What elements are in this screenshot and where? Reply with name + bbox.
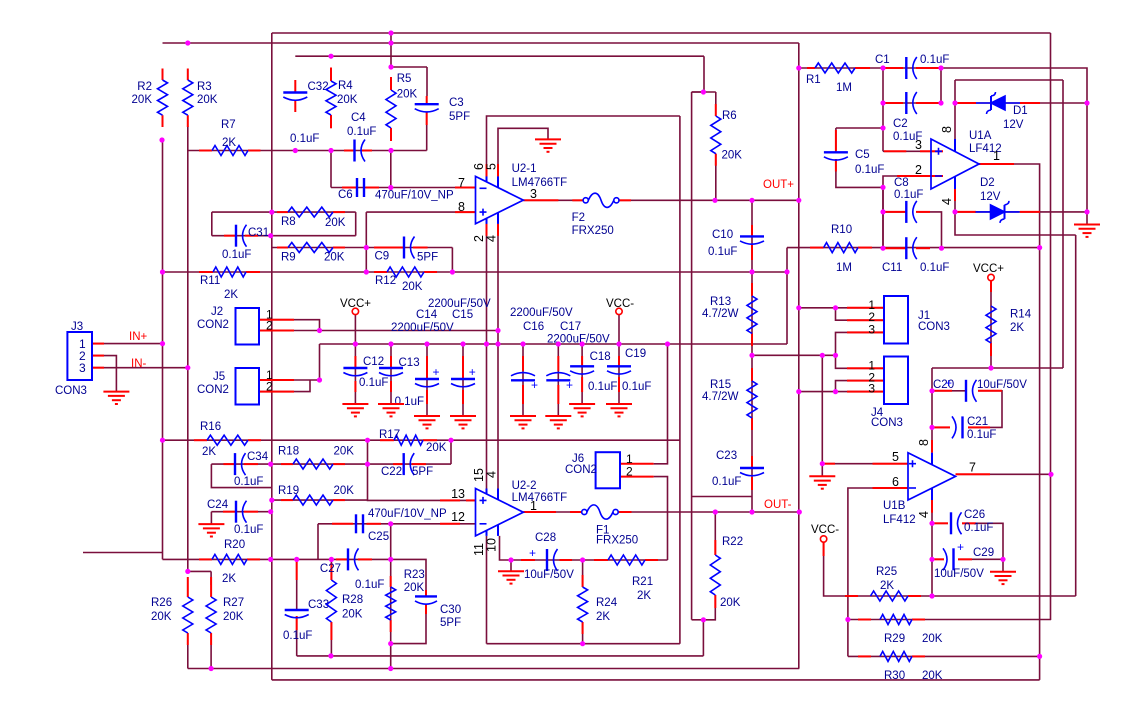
stub J6 pin2 stub (620, 476, 654, 478)
svg-text:R6: R6 (722, 110, 737, 122)
svg-text:3: 3 (868, 322, 875, 336)
resistor R10 (824, 243, 858, 253)
stub R3 bottom stub (187, 115, 189, 127)
stub U1A pin3 stub (920, 150, 943, 152)
wire J1 pin2 jog (836, 308, 885, 320)
svg-text:8: 8 (940, 126, 954, 133)
wire J2 pin1 over to pin2 (259, 320, 320, 331)
svg-text:1: 1 (993, 149, 1000, 163)
stub R21 right stub (645, 559, 658, 561)
capacitor C3 (415, 103, 439, 105)
svg-text:3: 3 (530, 187, 537, 201)
stub VCC- stem red (823, 542, 825, 556)
stub U1B pin7 stub (956, 473, 991, 475)
svg-text:8: 8 (917, 439, 931, 446)
svg-text:R19: R19 (278, 485, 299, 497)
wire C29 row right (958, 558, 1003, 560)
svg-text:2200uF/50V: 2200uF/50V (510, 307, 573, 319)
node C29 right (1000, 557, 1005, 562)
svg-text:5PF: 5PF (440, 617, 461, 629)
wire C34/R18 row y=464 (211, 463, 367, 465)
op-amp U2-2 LM4766TF (476, 489, 524, 536)
wire R9/C9 row y=247.5 left part (272, 247, 367, 249)
capacitor C28 10uF/50V (546, 549, 548, 571)
stub U2-1 pin2 stub (486, 224, 488, 236)
capacitor C15 2200uF (451, 378, 475, 380)
stub R15 top stub (751, 368, 753, 381)
svg-text:20K: 20K (151, 611, 172, 623)
svg-text:20K: 20K (397, 89, 418, 101)
svg-text:+: + (529, 546, 536, 560)
wire J4 pin3 row (799, 391, 884, 393)
resistor R6 (711, 116, 721, 154)
stub U1A pin4 red (954, 189, 956, 201)
capacitor C5 (824, 151, 848, 153)
wire vertical x=691.6 (y92 to R22 fork) (691, 92, 693, 620)
capacitor C11 (905, 237, 907, 259)
svg-text:5PF: 5PF (412, 466, 433, 478)
stub C4 left stub (344, 150, 355, 152)
stub C29 left red (932, 558, 944, 560)
stub R28 top red (330, 563, 332, 580)
wire R8 row y=212 (212, 211, 356, 213)
wire branch y=496.5 x691 to C23 column (692, 496, 752, 498)
node C15 rail (460, 341, 465, 346)
wire U1A pin8 riser (954, 103, 956, 139)
svg-text:20K: 20K (722, 150, 743, 162)
stub U2-1 pin3 output stub (523, 199, 558, 201)
node C10 bottom (749, 269, 754, 274)
svg-text:2K: 2K (637, 590, 651, 602)
svg-text:20K: 20K (197, 94, 218, 106)
stub C21 right red (968, 426, 990, 428)
stub U1B pin5 left red (824, 463, 835, 465)
svg-text:R27: R27 (223, 597, 244, 609)
capacitor C2 (905, 92, 907, 114)
svg-text:20K: 20K (337, 94, 358, 106)
wire R19 row y=500 (272, 499, 368, 501)
node C31 right (268, 233, 273, 238)
wire VCC+ post stem (354, 315, 356, 344)
stub R9 right stub (333, 247, 345, 249)
wire top bus y=33 (272, 32, 1051, 34)
stub R10 left stub (810, 247, 824, 249)
wire J6 pin1 riser to rail (654, 344, 668, 464)
stub U2-2 pin15 stub marker (486, 164, 488, 176)
svg-text:8: 8 (458, 200, 465, 214)
wire R26 bottom lead lower (187, 645, 189, 669)
svg-text:LF412: LF412 (883, 514, 916, 526)
wire C5 bottom loop (836, 159, 883, 187)
svg-text:2K: 2K (596, 611, 610, 623)
svg-text:20K: 20K (324, 252, 345, 264)
svg-text:LM4766TF: LM4766TF (512, 492, 568, 504)
stub C5 top red (835, 130, 837, 151)
svg-text:CON2: CON2 (197, 384, 229, 396)
svg-text:R20: R20 (224, 539, 245, 551)
node R5/bus33 (388, 30, 393, 35)
wire R27 bottom lead lower (210, 645, 212, 669)
stub C26 left red (932, 522, 948, 524)
node R23/C30 bottom (388, 641, 393, 646)
node C20 left (929, 388, 934, 393)
resistor R3 (183, 80, 193, 115)
stub D2 right red (1020, 211, 1040, 213)
stub U2-1 pin4 stub (497, 224, 499, 236)
stub C24 right stub (244, 511, 258, 513)
svg-text:2: 2 (626, 465, 633, 479)
wire D-box bottom loop (955, 212, 1076, 235)
wire C21 row left (932, 426, 950, 428)
wire VCC- to R25 left (824, 542, 845, 596)
svg-text:CON3: CON3 (871, 417, 903, 429)
svg-text:C18: C18 (590, 351, 611, 363)
svg-text:R17: R17 (379, 429, 400, 441)
svg-text:C31: C31 (248, 227, 269, 239)
op-amp U2-1 LM4766TF (476, 176, 524, 223)
wire left vertical x=272 (top to bottom rail) (271, 33, 273, 680)
stub J1 pin1 stub (847, 307, 884, 309)
svg-text:4: 4 (917, 511, 931, 518)
wire vertical x=787 (R10 corner to rail) (786, 248, 788, 344)
wire R1 row y=68 (799, 67, 883, 69)
stub C16 top stub (522, 356, 524, 371)
stub R12 right stub (424, 271, 437, 273)
resistor R21 (608, 555, 645, 565)
stub C15 bottom stub (462, 390, 464, 404)
stub R20 right stub (247, 558, 260, 560)
wire J1 pin1 row (799, 307, 884, 309)
node R29 left (845, 617, 850, 622)
node J1 pin1/2 (833, 305, 838, 310)
stub U2-1 pin7 stub (455, 187, 476, 189)
svg-text:C24: C24 (207, 499, 229, 511)
stub F2 right stub (618, 199, 631, 201)
svg-text:R25: R25 (876, 566, 897, 578)
wire x=367.5 R18/C22 drop (367, 440, 369, 464)
stub R13 bottom stub (751, 334, 753, 347)
wire vertical x=799 (y43 to bottom rail) (798, 43, 800, 669)
stub J4 pin3 stub (847, 391, 884, 393)
node C5 top (880, 125, 885, 130)
resistor R16 (207, 435, 248, 445)
stub C23 bottom stub (751, 477, 753, 490)
svg-text:20K: 20K (223, 611, 244, 623)
wire cap leg x=523 (522, 344, 524, 416)
wire rail y=344 right extension to x787 (668, 343, 788, 345)
svg-text:R12: R12 (375, 275, 396, 287)
stub C17 top stub (557, 356, 559, 371)
stub R7 right stub (248, 150, 261, 152)
svg-text:4: 4 (485, 235, 499, 242)
wire U2-1 pin8 row y=212 (366, 211, 475, 213)
wire J5 riser to rail (319, 344, 321, 380)
stub R9 left stub (277, 247, 288, 249)
node C10 top (749, 198, 754, 203)
stub C14 top stub (426, 356, 428, 379)
svg-text:C23: C23 (716, 450, 737, 462)
wire corner x704 y56-92 (692, 56, 704, 92)
stub C27 left stub (336, 558, 348, 560)
stub R8 right stub (333, 211, 345, 213)
node OUT- right (797, 509, 802, 514)
svg-text:C29: C29 (973, 547, 994, 559)
wire VCC- post stem (618, 315, 620, 344)
svg-text:C2: C2 (893, 118, 908, 130)
svg-text:C14: C14 (416, 309, 438, 321)
wire OUT- row y=512 left of F1 (523, 511, 581, 513)
svg-text:FRX250: FRX250 (572, 225, 614, 237)
wire C1 row (883, 67, 941, 69)
stub R4 top stub (330, 68, 332, 82)
stub R3 top stub (187, 69, 189, 81)
stub R21 left stub (594, 559, 608, 561)
svg-text:C28: C28 (535, 532, 556, 544)
svg-text:0.1uF: 0.1uF (588, 381, 617, 393)
wire row y=150.5 (R7/C32/R4/C4/C3) (188, 150, 427, 152)
stub C3 top stub (426, 96, 428, 104)
node C11 bus (1037, 245, 1042, 250)
svg-text:5PF: 5PF (417, 252, 438, 264)
svg-text:F2: F2 (572, 212, 585, 224)
wire R11/R12 row y=272 full (163, 271, 788, 273)
stub C26 right red (962, 522, 976, 524)
wire x=498 up (U2-1 pin4 column upper) (497, 222, 499, 331)
wire C8 right drop (919, 212, 942, 248)
wire y=92 stub (692, 91, 716, 93)
wire U2-2 pin11 drop (486, 536, 488, 644)
svg-text:20K: 20K (426, 442, 447, 454)
wire D-box left upper (954, 80, 956, 103)
node OUT+ right (796, 198, 801, 203)
op-amp U1A LF412 (931, 139, 979, 189)
svg-text:R16: R16 (200, 421, 221, 433)
ground U2-1 pin5 (535, 139, 561, 151)
svg-text:10uF/50V: 10uF/50V (977, 379, 1027, 391)
stub C25 right stub (367, 523, 382, 525)
node IN+ (160, 341, 165, 346)
stub J2 pin1 stub (259, 319, 294, 321)
resistor R28 (326, 580, 336, 622)
stub C10 bottom stub (751, 245, 753, 260)
stub R29 right red (912, 619, 925, 621)
node R25/pin4 (929, 593, 934, 598)
stub F1 right stub (618, 511, 631, 513)
stub R22 bottom red (714, 595, 716, 608)
stub U2-1 pin6 stub (486, 164, 488, 176)
wire C24 row y=511.7 (211, 511, 271, 513)
svg-text:10uF/50V: 10uF/50V (524, 569, 574, 581)
stub C4 right stub (362, 150, 372, 152)
node J6 rail (665, 341, 670, 346)
node C8 left (880, 209, 885, 214)
resistor R14 (986, 306, 996, 343)
stub C13 top stub (390, 356, 392, 368)
node C28 left/gnd (508, 557, 513, 562)
stub C8 right stub (916, 211, 930, 213)
capacitor C31 (235, 225, 237, 247)
ground C16 (510, 416, 536, 428)
stub R30 left red (858, 655, 871, 657)
node R12 right (450, 269, 455, 274)
svg-text:IN-: IN- (131, 358, 147, 370)
stub R1 right stub (855, 67, 870, 69)
svg-text:0.1uF: 0.1uF (355, 579, 384, 591)
stub R17 left stub (380, 439, 394, 441)
stub R14 bottom red (990, 343, 992, 356)
wire C29 row left (932, 558, 944, 560)
node D1 left (952, 100, 957, 105)
svg-text:C21: C21 (967, 416, 988, 428)
stub R28 bottom red (330, 622, 332, 640)
svg-text:470uF/10V_NP: 470uF/10V_NP (368, 508, 447, 520)
svg-text:C11: C11 (882, 262, 902, 274)
capacitor C6 470uF non-polar (356, 178, 358, 197)
node R4 top (328, 54, 333, 59)
node VCC+ rail (353, 341, 358, 346)
wire U1A pin4 drop (954, 189, 956, 212)
capacitor C20 10uF/50V (965, 380, 967, 402)
node R26 top (185, 569, 190, 574)
node C26 left (929, 521, 934, 526)
svg-text:R15: R15 (710, 379, 731, 391)
capacitor C34 (234, 453, 236, 475)
stub C23 top stub (751, 456, 753, 468)
svg-text:0.1uF: 0.1uF (964, 522, 993, 534)
svg-text:470uF/10V_NP: 470uF/10V_NP (375, 190, 454, 202)
wire vertical x=1075.7 (1075, 235, 1077, 596)
svg-text:C3: C3 (449, 97, 464, 109)
wire R16/R17 row y=440.2 (163, 439, 680, 441)
svg-text:R10: R10 (831, 224, 852, 236)
svg-text:20K: 20K (325, 217, 346, 229)
wire cap leg x=582.1 (581, 344, 583, 404)
stub C14 bottom stub (426, 390, 428, 404)
svg-text:2K: 2K (222, 137, 236, 149)
stub U1B pin8 red (931, 440, 933, 453)
wire vertical x=162.5 (R2 bottom / IN+ down to R20 row) (162, 140, 164, 559)
svg-text:R14: R14 (1010, 309, 1032, 321)
fuse F1 FRX250 (582, 505, 619, 519)
wire R8/C31 left loop (211, 212, 213, 236)
node pin4 rail (495, 341, 500, 346)
wire C34 left loop (211, 464, 271, 488)
node R28 bottom (328, 653, 333, 658)
stub C32 bottom stub (294, 100, 296, 112)
svg-text:5: 5 (485, 163, 499, 170)
capacitor C16 2200uF (511, 373, 535, 376)
svg-text:J2: J2 (211, 306, 223, 318)
stub C33 bottom red (296, 616, 298, 630)
svg-text:2: 2 (915, 163, 922, 177)
power port VCC- right (820, 536, 826, 542)
resistor R13 4.7/2W (747, 296, 757, 334)
wire R24 top leg (582, 560, 584, 587)
svg-text:C34: C34 (247, 451, 269, 463)
stub C31 left stub (224, 235, 236, 237)
wire J4 pin1 riser (836, 355, 885, 368)
capacitor C32 (283, 91, 307, 93)
stub pin13 red end (466, 499, 476, 501)
resistor R18 (293, 459, 333, 469)
ground U1B pin5 (809, 476, 835, 488)
stub C30 bottom stub (425, 604, 427, 615)
svg-text:1M: 1M (836, 262, 852, 274)
ground U1A zener node (1074, 225, 1100, 237)
stub C25 left stub (332, 523, 353, 525)
svg-text:CON2: CON2 (565, 464, 597, 476)
stub R24 bottom red (582, 622, 584, 634)
stub U1A pin2 stub (897, 175, 943, 177)
node C34/R18 (268, 462, 273, 467)
resistor R8 (288, 207, 333, 217)
wire cap leg x=463 (462, 344, 464, 416)
resistor R19 (293, 495, 333, 505)
svg-text:0.1uF: 0.1uF (395, 396, 424, 408)
stub R23 bottom stub (390, 620, 392, 632)
wire R22 bottom corner (703, 595, 715, 620)
wire C9 right drop to R12 row (451, 248, 453, 273)
wire bottom row y=668.5 (188, 668, 800, 670)
stub U2-2 pin13 stub (440, 499, 460, 501)
node R16 left (160, 438, 165, 443)
wire U1B pin4 column down (931, 500, 933, 596)
node J1 pin1 bus (796, 305, 801, 310)
wire C9 row right part (366, 247, 452, 249)
capacitor C19 (607, 365, 631, 367)
wire C26 row left (932, 522, 948, 524)
svg-text:R29: R29 (884, 633, 905, 645)
wire cap leg x=355.4 (354, 344, 356, 404)
node C13 rail (388, 341, 393, 346)
wire C3 bottom lead to row150 (426, 113, 428, 151)
wire cap leg x=427 (426, 344, 428, 416)
wire J3 pin2 to ground (92, 356, 117, 392)
wire long row y=559.4 (R20/C27) (163, 558, 391, 560)
capacitor C18 (570, 365, 594, 367)
resistor R11 (213, 267, 246, 277)
svg-text:CON2: CON2 (197, 319, 229, 331)
stub R7 left stub (199, 150, 212, 152)
stub C15 top stub (462, 356, 464, 379)
node C1 left (880, 65, 885, 70)
wire D1 row y=103 (955, 102, 1087, 104)
node D2 left (952, 209, 957, 214)
wire vertical x=391 (bus33 to R5 top) (390, 33, 392, 67)
stub J1 pin3 stub (847, 331, 884, 333)
wire row y=187.5 C6 to U2-1 pin7 (331, 187, 476, 189)
svg-text:7: 7 (458, 176, 465, 190)
stub R30 bottom red (912, 655, 925, 657)
node C32 bottom (293, 148, 298, 153)
stub U2-2 pin12 stub (440, 523, 460, 525)
wire right vertical x=1050 (top bus to R29) (1050, 33, 1052, 620)
ground C18 (569, 404, 595, 416)
svg-text:10uF/50V: 10uF/50V (934, 568, 984, 580)
svg-text:R5: R5 (397, 73, 412, 85)
wire R24 bottom leg (582, 622, 584, 644)
wire R26/R27 top row y=571.4 (188, 570, 211, 572)
svg-text:6: 6 (892, 475, 899, 489)
svg-text:0.1uF: 0.1uF (967, 429, 996, 441)
node C19 rail (616, 341, 621, 346)
stub C18 top stub (581, 356, 583, 366)
stub C1 right stub (916, 67, 941, 69)
wire J6 pin2 drop to R21 (654, 477, 668, 560)
ground C17 (545, 416, 571, 428)
capacitor C26 (950, 512, 952, 534)
svg-text:R9: R9 (281, 252, 296, 264)
